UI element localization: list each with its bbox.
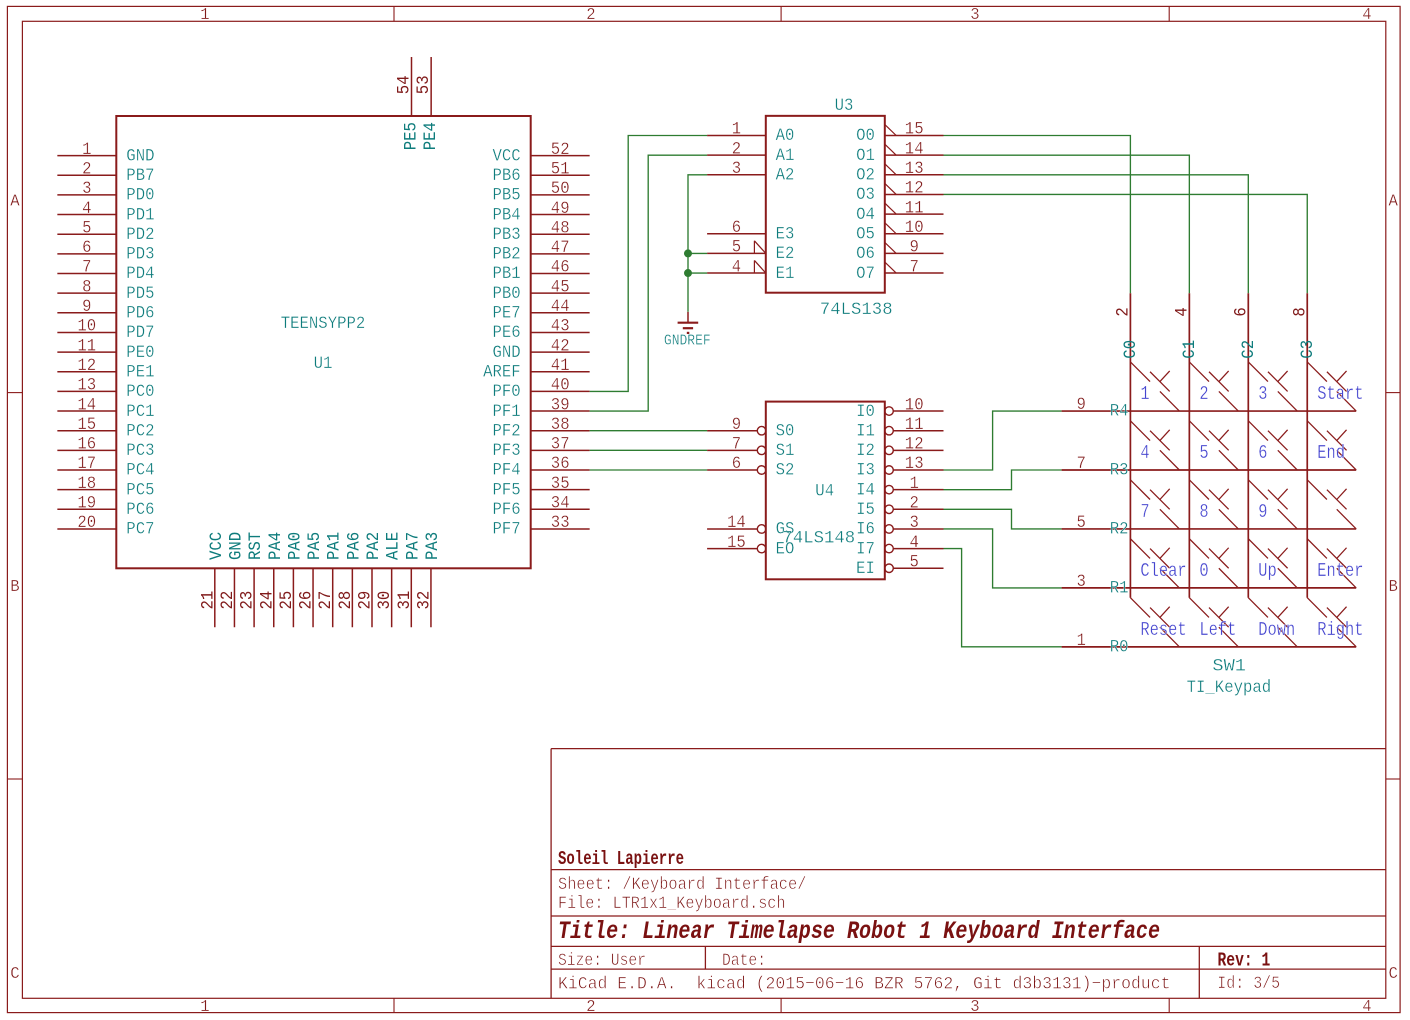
svg-text:4: 4 (82, 199, 91, 219)
svg-text:C3: C3 (1298, 340, 1318, 359)
svg-text:74LS138: 74LS138 (820, 300, 893, 320)
svg-text:A1: A1 (776, 146, 795, 166)
svg-text:Clear: Clear (1140, 560, 1186, 582)
svg-text:13: 13 (77, 376, 96, 396)
svg-text:24: 24 (257, 591, 277, 610)
svg-text:8: 8 (1199, 501, 1208, 523)
svg-text:9: 9 (910, 238, 919, 258)
svg-text:PA0: PA0 (285, 532, 305, 560)
svg-text:S2: S2 (776, 461, 795, 481)
svg-text:I3: I3 (856, 461, 875, 481)
svg-text:Down: Down (1258, 619, 1295, 641)
svg-text:2: 2 (1114, 307, 1134, 316)
svg-text:R4: R4 (1110, 402, 1129, 422)
svg-text:0: 0 (1199, 560, 1208, 582)
svg-text:PF7: PF7 (493, 520, 521, 540)
svg-text:26: 26 (297, 591, 317, 610)
svg-text:5: 5 (910, 552, 919, 572)
svg-text:Right: Right (1317, 619, 1363, 641)
svg-text:E2: E2 (776, 244, 795, 264)
svg-text:3: 3 (1077, 572, 1086, 592)
svg-text:PF0: PF0 (493, 382, 521, 402)
svg-text:1: 1 (1077, 631, 1086, 651)
svg-text:7: 7 (1140, 501, 1149, 523)
svg-text:PB4: PB4 (493, 205, 521, 225)
svg-text:PC3: PC3 (126, 441, 154, 461)
svg-text:16: 16 (77, 435, 96, 455)
svg-text:13: 13 (905, 159, 924, 179)
svg-text:18: 18 (77, 474, 96, 494)
svg-text:4: 4 (1173, 307, 1193, 316)
svg-text:9: 9 (732, 415, 741, 435)
svg-text:PC5: PC5 (126, 480, 154, 500)
svg-text:35: 35 (551, 474, 570, 494)
svg-text:Enter: Enter (1317, 560, 1363, 582)
svg-text:PF6: PF6 (493, 500, 521, 520)
svg-text:39: 39 (551, 395, 570, 415)
svg-text:49: 49 (551, 199, 570, 219)
svg-text:2: 2 (82, 159, 91, 179)
svg-text:I7: I7 (856, 539, 875, 559)
svg-text:25: 25 (277, 591, 297, 610)
svg-text:R3: R3 (1110, 461, 1129, 481)
svg-text:EI: EI (856, 559, 875, 579)
svg-text:1: 1 (200, 5, 209, 24)
svg-text:22: 22 (218, 591, 238, 610)
svg-text:Left: Left (1199, 619, 1236, 641)
svg-text:1: 1 (910, 474, 919, 494)
svg-text:7: 7 (82, 258, 91, 278)
svg-text:9: 9 (1258, 501, 1267, 523)
svg-text:GNDREF: GNDREF (664, 334, 711, 350)
svg-text:S0: S0 (776, 421, 795, 441)
svg-text:PF2: PF2 (493, 421, 521, 441)
svg-text:51: 51 (551, 159, 570, 179)
svg-text:SW1: SW1 (1212, 657, 1246, 677)
svg-text:46: 46 (551, 258, 570, 278)
svg-text:PD0: PD0 (126, 186, 154, 206)
svg-text:PE6: PE6 (493, 323, 521, 343)
svg-text:29: 29 (356, 591, 376, 610)
svg-text:PF4: PF4 (493, 461, 521, 481)
svg-text:PD7: PD7 (126, 323, 154, 343)
svg-text:PD4: PD4 (126, 264, 154, 284)
svg-text:PA6: PA6 (344, 532, 364, 560)
svg-text:PE7: PE7 (493, 304, 521, 324)
svg-text:PF1: PF1 (493, 402, 521, 422)
svg-text:1: 1 (732, 120, 741, 140)
svg-text:ALE: ALE (384, 532, 404, 560)
svg-text:O1: O1 (856, 146, 875, 166)
svg-text:1: 1 (82, 140, 91, 160)
svg-text:12: 12 (905, 179, 924, 199)
svg-text:4: 4 (732, 257, 741, 277)
svg-text:R1: R1 (1110, 578, 1129, 598)
svg-text:44: 44 (551, 297, 570, 317)
svg-text:Start: Start (1317, 383, 1363, 405)
svg-text:1: 1 (200, 997, 209, 1016)
svg-text:PA7: PA7 (403, 532, 423, 560)
svg-text:Id: 3/5: Id: 3/5 (1217, 974, 1280, 994)
svg-text:RST: RST (246, 532, 266, 560)
svg-text:6: 6 (732, 218, 741, 238)
svg-text:11: 11 (905, 415, 924, 435)
svg-text:40: 40 (551, 376, 570, 396)
svg-text:4: 4 (910, 533, 919, 553)
svg-text:47: 47 (551, 238, 570, 258)
svg-text:PA2: PA2 (364, 532, 384, 560)
svg-text:2: 2 (586, 5, 595, 24)
svg-text:O7: O7 (856, 264, 875, 284)
svg-text:GND: GND (126, 146, 154, 166)
svg-text:A0: A0 (776, 126, 795, 146)
svg-text:12: 12 (77, 356, 96, 376)
svg-text:Rev: 1: Rev: 1 (1218, 950, 1271, 972)
svg-text:34: 34 (551, 494, 570, 514)
svg-text:14: 14 (727, 513, 746, 533)
svg-text:Size: User: Size: User (558, 951, 646, 971)
svg-text:U3: U3 (835, 96, 854, 116)
svg-text:2: 2 (732, 139, 741, 159)
svg-text:I0: I0 (856, 402, 875, 422)
svg-text:PF3: PF3 (493, 441, 521, 461)
svg-text:PE0: PE0 (126, 343, 154, 363)
svg-text:12: 12 (905, 435, 924, 455)
svg-text:PC2: PC2 (126, 421, 154, 441)
svg-text:Title: Linear Timelapse Robot: Title: Linear Timelapse Robot 1 Keyboard… (558, 917, 1160, 946)
svg-text:38: 38 (551, 415, 570, 435)
svg-text:17: 17 (77, 454, 96, 474)
svg-text:8: 8 (1291, 307, 1311, 316)
svg-text:GND: GND (226, 532, 246, 560)
svg-text:3: 3 (910, 513, 919, 533)
svg-text:15: 15 (77, 415, 96, 435)
svg-text:15: 15 (727, 533, 746, 553)
svg-text:13: 13 (905, 454, 924, 474)
svg-text:Sheet: /Keyboard Interface/: Sheet: /Keyboard Interface/ (558, 875, 806, 895)
svg-text:O4: O4 (856, 205, 875, 225)
svg-text:30: 30 (375, 591, 395, 610)
svg-text:Up: Up (1258, 560, 1277, 582)
svg-text:U4: U4 (815, 481, 834, 501)
svg-text:E3: E3 (776, 224, 795, 244)
svg-text:PB7: PB7 (126, 166, 154, 186)
svg-text:50: 50 (551, 179, 570, 199)
svg-text:C: C (1389, 964, 1398, 983)
svg-text:10: 10 (905, 395, 924, 415)
svg-text:5: 5 (82, 218, 91, 238)
svg-text:O3: O3 (856, 185, 875, 205)
svg-text:PD2: PD2 (126, 225, 154, 245)
svg-text:6: 6 (1232, 307, 1252, 316)
svg-text:PA4: PA4 (266, 532, 286, 560)
svg-text:4: 4 (1362, 997, 1371, 1016)
svg-text:VCC: VCC (493, 146, 521, 166)
svg-text:42: 42 (551, 336, 570, 356)
svg-text:PC0: PC0 (126, 382, 154, 402)
svg-text:74LS148: 74LS148 (782, 528, 855, 548)
svg-text:2: 2 (910, 494, 919, 514)
svg-text:3: 3 (732, 159, 741, 179)
svg-text:20: 20 (77, 513, 96, 533)
svg-text:4: 4 (1140, 442, 1149, 464)
svg-text:R0: R0 (1110, 637, 1129, 657)
svg-text:I6: I6 (856, 520, 875, 540)
svg-text:I1: I1 (856, 421, 875, 441)
svg-text:5: 5 (1199, 442, 1208, 464)
svg-text:I5: I5 (856, 500, 875, 520)
svg-text:3: 3 (970, 997, 979, 1016)
svg-text:PE5: PE5 (402, 122, 422, 150)
svg-text:U1: U1 (314, 354, 333, 374)
svg-text:TEENSYPP2: TEENSYPP2 (281, 314, 366, 334)
svg-text:A: A (1389, 192, 1398, 211)
svg-text:PB5: PB5 (493, 186, 521, 206)
svg-text:PC1: PC1 (126, 402, 154, 422)
svg-text:PB0: PB0 (493, 284, 521, 304)
svg-text:9: 9 (82, 297, 91, 317)
svg-text:R2: R2 (1110, 519, 1129, 539)
svg-text:PD5: PD5 (126, 284, 154, 304)
svg-text:PA1: PA1 (325, 532, 345, 560)
svg-text:7: 7 (732, 435, 741, 455)
svg-text:11: 11 (77, 336, 96, 356)
svg-text:7: 7 (1077, 454, 1086, 474)
svg-text:PB1: PB1 (493, 264, 521, 284)
svg-text:14: 14 (905, 139, 924, 159)
svg-text:5: 5 (732, 238, 741, 258)
svg-text:45: 45 (551, 277, 570, 297)
svg-text:PF5: PF5 (493, 480, 521, 500)
svg-text:PB3: PB3 (493, 225, 521, 245)
svg-text:10: 10 (905, 218, 924, 238)
svg-text:5: 5 (1077, 513, 1086, 533)
svg-text:O6: O6 (856, 244, 875, 264)
svg-text:1: 1 (1140, 383, 1149, 405)
svg-text:21: 21 (198, 591, 218, 610)
svg-text:3: 3 (82, 179, 91, 199)
svg-text:33: 33 (551, 513, 570, 533)
svg-text:Reset: Reset (1140, 619, 1186, 641)
svg-text:E1: E1 (776, 264, 795, 284)
svg-text:10: 10 (77, 317, 96, 337)
svg-text:O2: O2 (856, 166, 875, 186)
svg-text:VCC: VCC (207, 532, 227, 560)
svg-text:C1: C1 (1180, 340, 1200, 359)
svg-text:Date:: Date: (722, 951, 766, 971)
svg-text:9: 9 (1077, 395, 1086, 415)
svg-text:19: 19 (77, 494, 96, 514)
svg-text:43: 43 (551, 317, 570, 337)
svg-text:7: 7 (910, 257, 919, 277)
svg-text:I2: I2 (856, 441, 875, 461)
svg-text:PD6: PD6 (126, 304, 154, 324)
svg-text:8: 8 (82, 277, 91, 297)
svg-text:31: 31 (395, 591, 415, 610)
svg-text:27: 27 (316, 591, 336, 610)
svg-text:File: LTR1x1_Keyboard.sch: File: LTR1x1_Keyboard.sch (558, 894, 786, 914)
svg-text:54: 54 (394, 75, 414, 94)
svg-text:11: 11 (905, 198, 924, 218)
svg-text:2: 2 (1199, 383, 1208, 405)
svg-text:A: A (10, 192, 19, 211)
svg-text:PC6: PC6 (126, 500, 154, 520)
svg-text:KiCad E.D.A. kicad (2015−06−1: KiCad E.D.A. kicad (2015−06−16 BZR 5762,… (558, 974, 1171, 994)
svg-text:PA5: PA5 (305, 532, 325, 560)
svg-text:41: 41 (551, 356, 570, 376)
svg-text:O5: O5 (856, 224, 875, 244)
svg-text:Soleil Lapierre: Soleil Lapierre (558, 848, 684, 870)
svg-text:PE1: PE1 (126, 362, 154, 382)
svg-text:PC7: PC7 (126, 520, 154, 540)
svg-text:37: 37 (551, 435, 570, 455)
svg-text:36: 36 (551, 454, 570, 474)
svg-text:6: 6 (1258, 442, 1267, 464)
svg-text:3: 3 (1258, 383, 1267, 405)
svg-text:C: C (10, 964, 19, 983)
svg-text:O0: O0 (856, 126, 875, 146)
svg-text:I4: I4 (856, 480, 875, 500)
svg-text:3: 3 (970, 5, 979, 24)
svg-text:6: 6 (732, 454, 741, 474)
svg-text:32: 32 (414, 591, 434, 610)
svg-text:PD1: PD1 (126, 205, 154, 225)
svg-text:PD3: PD3 (126, 245, 154, 265)
svg-text:2: 2 (586, 997, 595, 1016)
svg-text:GND: GND (493, 343, 521, 363)
svg-text:B: B (1389, 577, 1398, 596)
svg-text:TI_Keypad: TI_Keypad (1187, 678, 1272, 698)
svg-text:PA3: PA3 (423, 532, 443, 560)
svg-text:PB6: PB6 (493, 166, 521, 186)
svg-text:6: 6 (82, 238, 91, 258)
svg-text:A2: A2 (776, 166, 795, 186)
svg-text:15: 15 (905, 120, 924, 140)
svg-text:C0: C0 (1121, 340, 1141, 359)
svg-text:28: 28 (336, 591, 356, 610)
svg-text:S1: S1 (776, 441, 795, 461)
svg-text:PE4: PE4 (421, 122, 441, 150)
svg-text:52: 52 (551, 140, 570, 160)
svg-text:B: B (10, 577, 19, 596)
svg-text:48: 48 (551, 218, 570, 238)
svg-text:23: 23 (238, 591, 258, 610)
svg-text:AREF: AREF (483, 362, 521, 382)
svg-text:14: 14 (77, 395, 96, 415)
svg-text:PB2: PB2 (493, 245, 521, 265)
svg-text:C2: C2 (1239, 340, 1259, 359)
svg-text:End: End (1317, 442, 1345, 464)
svg-text:PC4: PC4 (126, 461, 154, 481)
svg-text:4: 4 (1362, 5, 1371, 24)
svg-text:53: 53 (414, 75, 434, 94)
